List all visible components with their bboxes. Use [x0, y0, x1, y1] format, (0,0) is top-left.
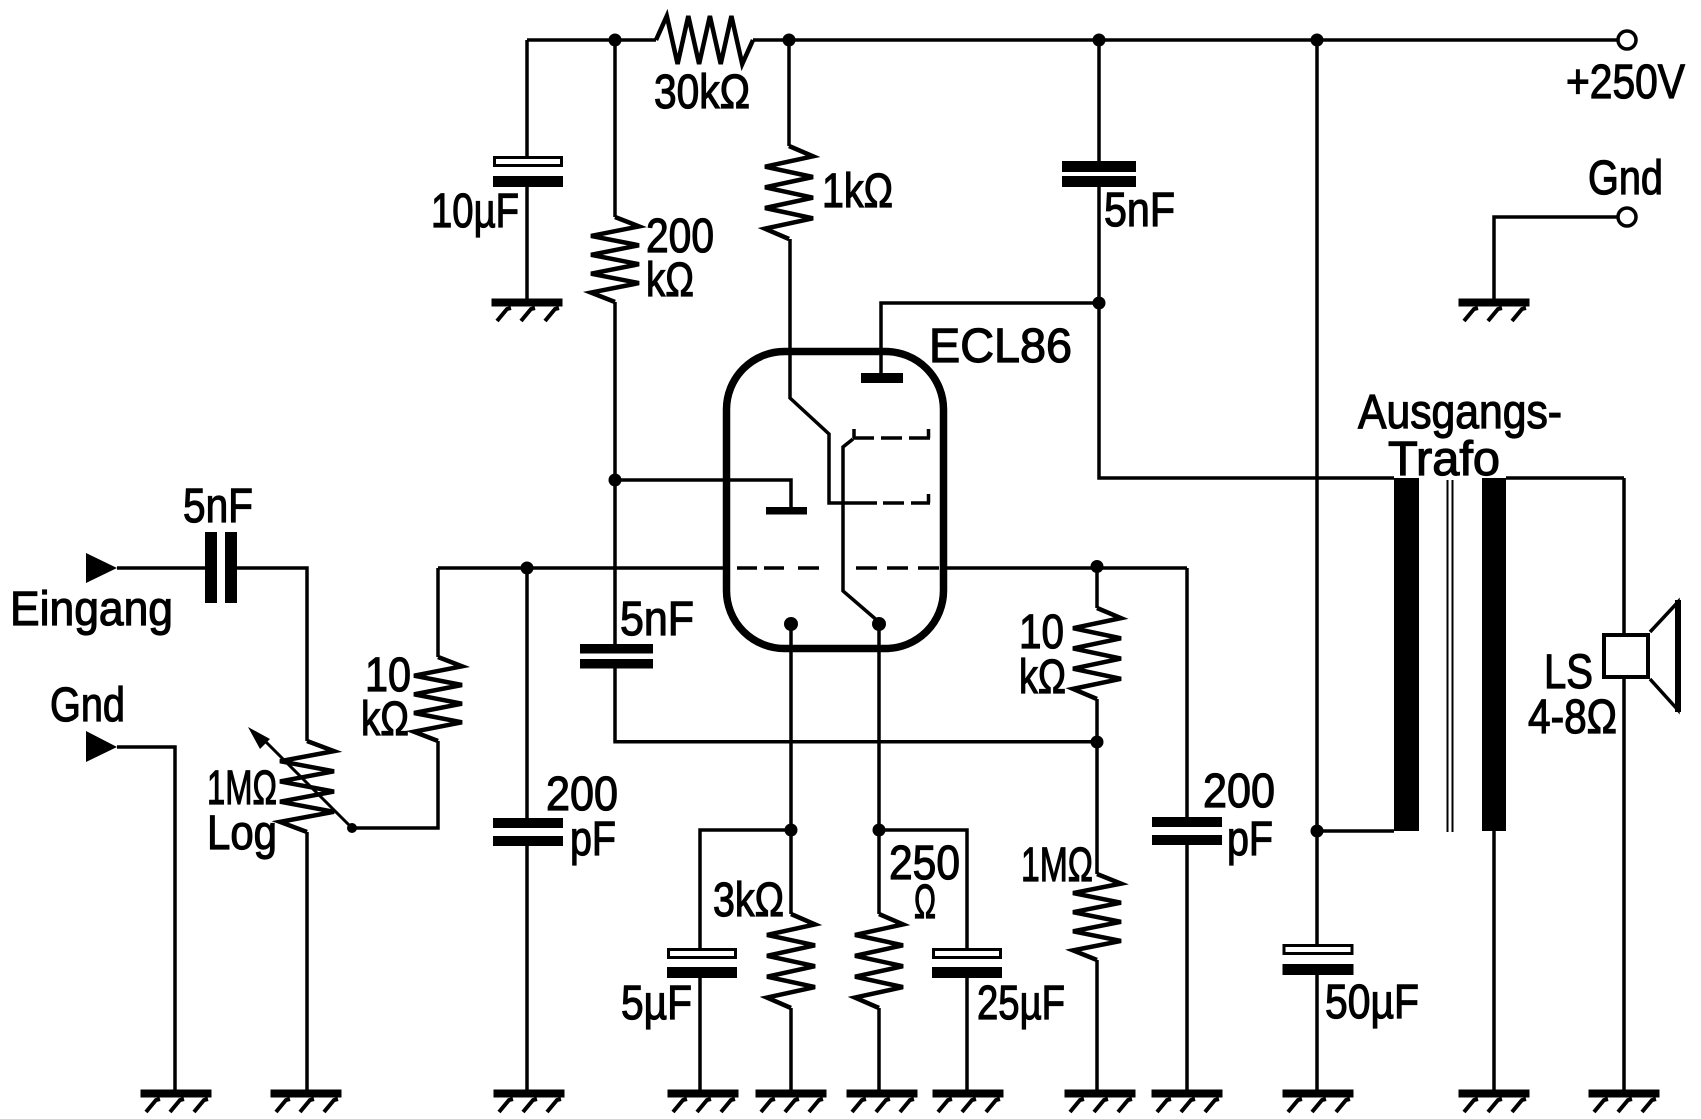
- node junction (1317,40): [1311, 34, 1324, 47]
- wire gnd input lead: [117, 747, 175, 1091]
- resistor 1MΩ grid leak: [1073, 874, 1121, 960]
- wire pentode g1 lead: [944, 566, 1187, 570]
- wire speaker bottom lead: [1622, 679, 1626, 1091]
- tube grid dashes triode: [737, 566, 819, 570]
- ground 200pF-left: [494, 1090, 565, 1098]
- wire 250Ω top lead: [877, 830, 881, 914]
- node junction (1099,40): [1093, 34, 1106, 47]
- node junction (789,40): [783, 34, 796, 47]
- wire 50µF bottom lead: [1315, 975, 1319, 1091]
- wire coupling cap bottom lead: [613, 668, 1097, 742]
- wire gnd right lead: [1494, 217, 1617, 299]
- wire secondary bottom lead: [1492, 831, 1496, 1091]
- svg-text:30kΩ: 30kΩ: [654, 66, 750, 119]
- wire wiper to 10k: [352, 741, 438, 828]
- resistor 200kΩ: [591, 217, 639, 302]
- tube screen grid g2 dashes: [856, 494, 930, 503]
- capacitor 10µF: [495, 158, 562, 166]
- svg-text:4-8Ω: 4-8Ω: [1528, 691, 1617, 744]
- wire 200pF-left top lead: [525, 568, 529, 818]
- wire coupling cap top lead: [613, 480, 617, 644]
- node transformer primary junction: [1311, 825, 1324, 838]
- svg-text:Ausgangs-: Ausgangs-: [1358, 386, 1562, 439]
- svg-text:kΩ: kΩ: [361, 693, 409, 746]
- wire 1MΩ bottom lead: [1095, 960, 1099, 1091]
- wire 5nF bottom lead: [1097, 187, 1101, 303]
- node g1/10k junction: [1091, 560, 1104, 573]
- ground 250Ω: [847, 1090, 918, 1098]
- wire 250Ω bottom lead: [877, 1008, 881, 1091]
- svg-text:5nF: 5nF: [183, 480, 253, 533]
- wire 3kΩ bottom lead: [789, 1008, 793, 1091]
- node triode anode junction: [609, 474, 622, 487]
- terminal +250V: [1618, 31, 1636, 49]
- pentode anode plate U1b: [861, 373, 903, 383]
- wire pentode cathode lead: [877, 624, 881, 830]
- resistor 3kΩ: [767, 914, 815, 1008]
- speaker LS: [1604, 635, 1648, 677]
- wire pentode anode lead: [881, 303, 1099, 373]
- node pentode anode junction: [1093, 297, 1106, 310]
- ground 200pF-right: [1152, 1090, 1223, 1098]
- svg-text:Gnd: Gnd: [50, 679, 125, 732]
- svg-text:1kΩ: 1kΩ: [822, 165, 893, 218]
- svg-text:+250V: +250V: [1566, 56, 1685, 109]
- svg-text:3kΩ: 3kΩ: [713, 874, 784, 927]
- wire 200pF-left bottom lead: [525, 846, 529, 1091]
- svg-text:50µF: 50µF: [1325, 976, 1419, 1029]
- node grid/200pF junction: [521, 562, 534, 575]
- wire 1kΩ to screen grid g2: [790, 239, 856, 503]
- ground 5µF: [668, 1090, 739, 1098]
- potentiometer 1MΩ log track: [280, 741, 334, 832]
- svg-text:200: 200: [1203, 765, 1275, 818]
- resistor 10kΩ pentode grid: [1073, 608, 1121, 699]
- tube pentode cathode: [843, 439, 879, 622]
- wire 1MΩ top lead: [1095, 742, 1099, 874]
- tube suppressor grid g3 dashes: [853, 429, 930, 438]
- node pot wiper: [347, 823, 357, 833]
- wire input lead: [117, 566, 205, 570]
- wire input cap to pot: [237, 568, 307, 741]
- resistor 30kΩ: [656, 16, 753, 64]
- wire anode to transformer: [1099, 303, 1394, 478]
- node 10k/1M junction: [1091, 736, 1104, 749]
- wire 10µF top lead: [525, 40, 529, 156]
- svg-text:Gnd: Gnd: [1588, 152, 1663, 205]
- wire primary bottom lead: [1317, 829, 1394, 833]
- wire pot bottom lead: [305, 832, 309, 1091]
- svg-text:1MΩ: 1MΩ: [1021, 839, 1093, 892]
- ground 1MΩ: [1065, 1090, 1136, 1098]
- wire 25µF bottom lead: [965, 978, 969, 1091]
- transformer core: [1448, 480, 1453, 832]
- resistor 250Ω: [855, 914, 903, 1008]
- capacitor 200pF left: [493, 818, 563, 828]
- potentiometer wiper arrow: [260, 736, 352, 828]
- triode anode plate U1a: [766, 507, 807, 515]
- wire 3kΩ top lead: [789, 830, 793, 914]
- resistor 1kΩ: [765, 146, 813, 239]
- wire 5nF top lead: [1097, 40, 1101, 161]
- wire 1kΩ top lead: [787, 40, 791, 146]
- node junction (615,40): [609, 34, 622, 47]
- svg-text:Log: Log: [207, 807, 277, 860]
- svg-text:kΩ: kΩ: [1019, 651, 1066, 704]
- wire speaker top lead: [1622, 478, 1626, 633]
- ground 10µF: [492, 299, 563, 307]
- wire +250V top rail: [527, 38, 1617, 42]
- wire +250V to transformer: [1315, 40, 1319, 831]
- wire 10k-right top lead: [1095, 566, 1099, 608]
- svg-text:10µF: 10µF: [431, 185, 519, 238]
- wire 10µF bottom lead: [525, 187, 529, 299]
- wire 200pF-right bottom lead: [1185, 845, 1189, 1091]
- svg-text:5µF: 5µF: [621, 977, 692, 1030]
- wire triode grid lead: [438, 566, 727, 570]
- wire 50µF top lead: [1315, 831, 1319, 944]
- svg-text:pF: pF: [570, 813, 616, 866]
- wire 200pF-right top lead: [1185, 568, 1189, 817]
- resistor 10kΩ grid: [414, 657, 462, 741]
- wire 5µF bottom lead: [698, 978, 702, 1091]
- terminal Gnd right: [1618, 208, 1636, 226]
- transformer secondary winding T1: [1482, 478, 1506, 831]
- wire triode cathode lead: [789, 624, 793, 830]
- ground 3kΩ: [756, 1090, 827, 1098]
- svg-text:25µF: 25µF: [977, 977, 1065, 1030]
- node pentode cathode junction: [873, 824, 886, 837]
- node triode cathode pin: [784, 617, 798, 631]
- svg-text:Eingang: Eingang: [10, 583, 173, 636]
- ground pot: [271, 1090, 342, 1098]
- capacitor 50µF: [1284, 946, 1352, 954]
- node pentode cathode pin: [872, 617, 886, 631]
- svg-text:kΩ: kΩ: [646, 254, 694, 307]
- capacitor 5nF coupling: [580, 644, 653, 654]
- capacitor 5µF: [669, 950, 736, 958]
- svg-text:ECL86: ECL86: [929, 320, 1072, 373]
- ground input: [141, 1090, 212, 1098]
- wire cathode to 25µF: [879, 830, 967, 948]
- wire cathode to 5µF: [700, 830, 791, 948]
- svg-text:5nF: 5nF: [1104, 184, 1175, 237]
- capacitor 5nF input: [205, 532, 217, 603]
- wire 200kΩ bottom lead: [613, 302, 617, 480]
- wire 10k top lead: [436, 568, 440, 657]
- ground 25µF: [933, 1090, 1004, 1098]
- tube ECL86 envelope: [727, 352, 944, 649]
- ground speaker: [1589, 1090, 1660, 1098]
- svg-text:5nF: 5nF: [620, 593, 694, 646]
- ground right: [1459, 299, 1530, 307]
- node triode cathode junction: [785, 824, 798, 837]
- wire 10k-right bottom lead: [1095, 699, 1099, 742]
- wire triode anode lead: [615, 480, 791, 507]
- terminal gnd arrow: [86, 731, 117, 762]
- tube grid dashes pentode g1: [856, 566, 939, 570]
- wire 200kΩ top lead: [613, 40, 617, 217]
- svg-text:Ω: Ω: [914, 876, 936, 929]
- capacitor 5nF anode-supply: [1062, 161, 1136, 172]
- ground secondary: [1459, 1090, 1530, 1098]
- capacitor 25µF: [934, 950, 1001, 958]
- ground 50µF: [1283, 1090, 1354, 1098]
- wire secondary top lead: [1506, 476, 1624, 480]
- terminal input arrow: [86, 553, 117, 583]
- svg-text:pF: pF: [1227, 813, 1273, 866]
- transformer primary winding T1: [1394, 478, 1419, 831]
- capacitor 200pF right: [1152, 817, 1222, 827]
